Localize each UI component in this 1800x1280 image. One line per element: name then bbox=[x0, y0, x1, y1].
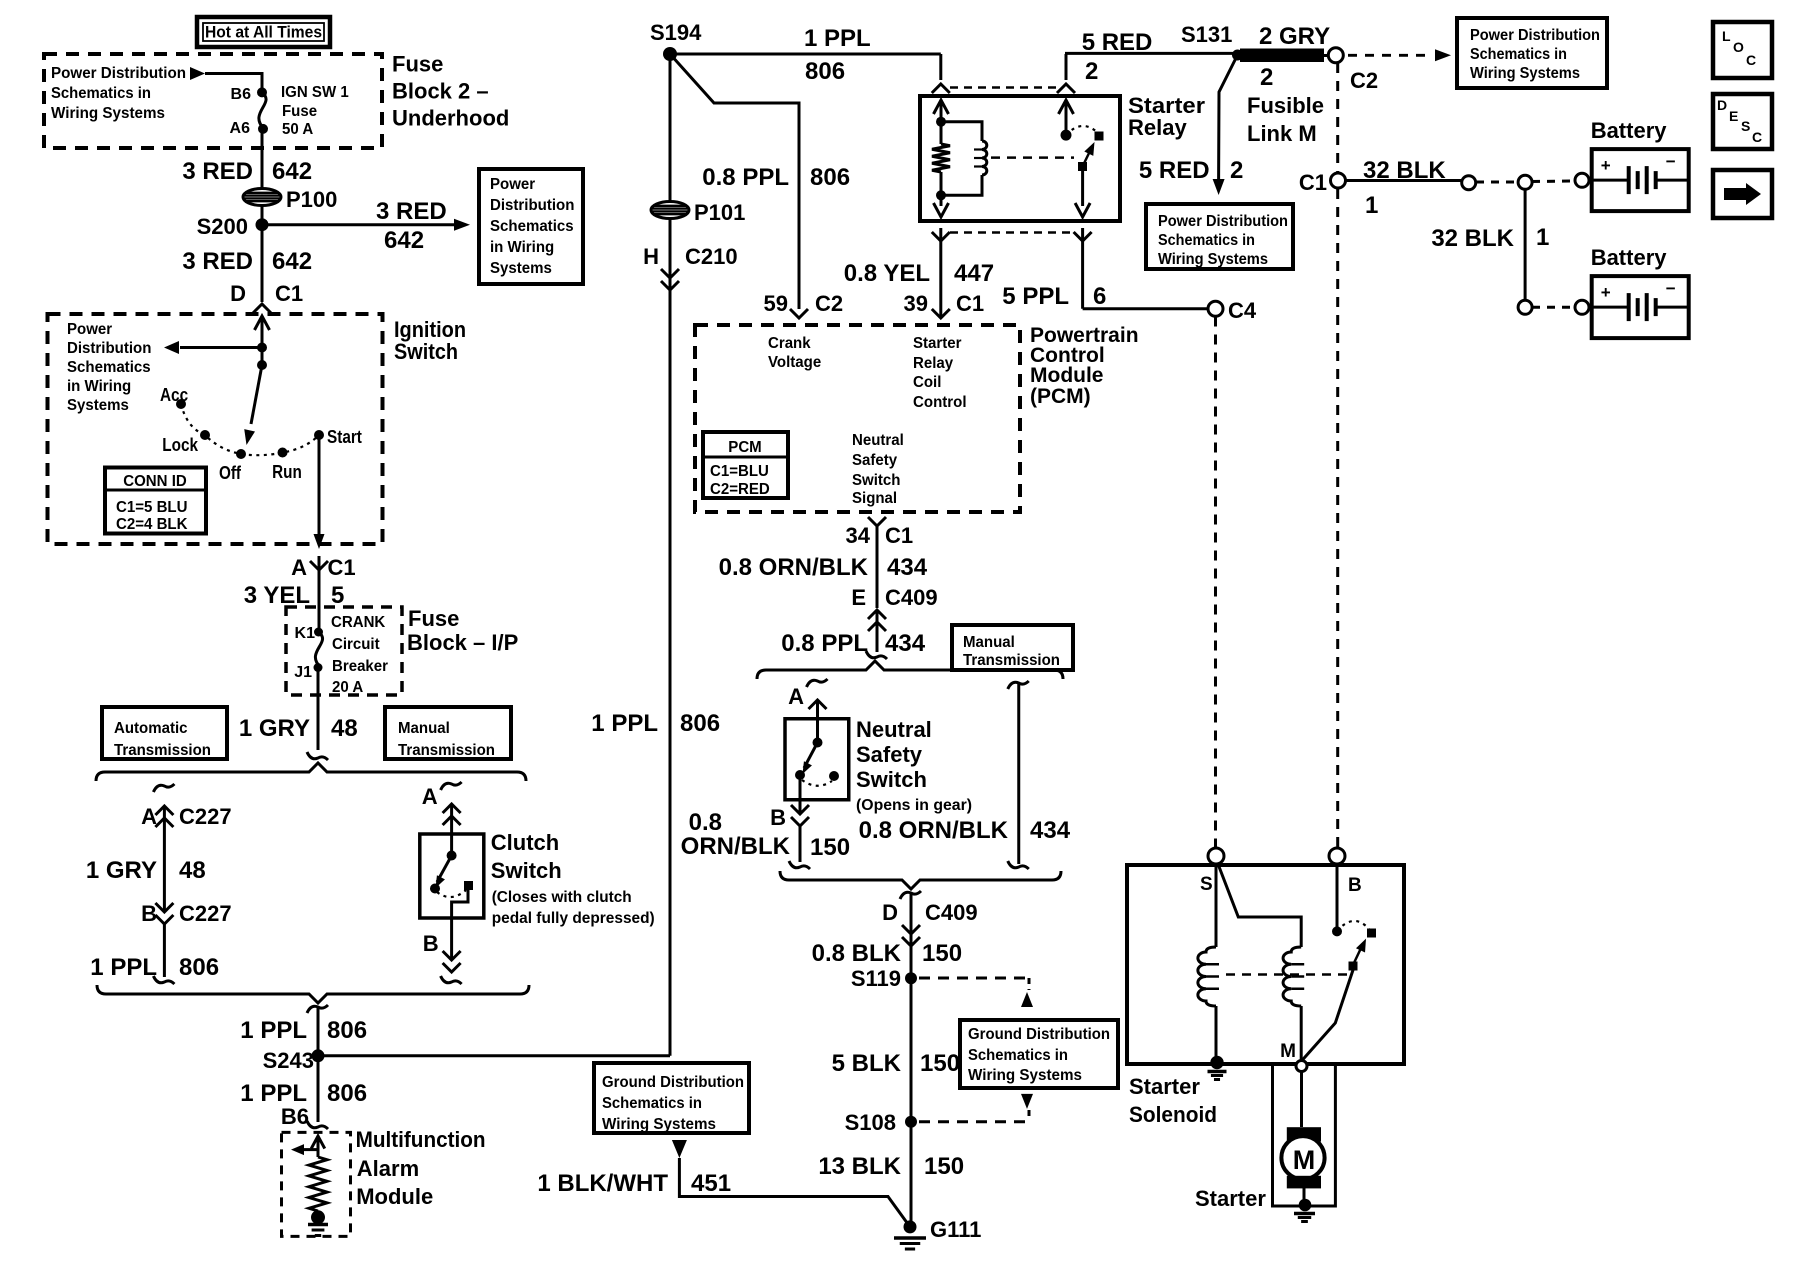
svg-text:Battery: Battery bbox=[1591, 245, 1668, 270]
svg-text:C409: C409 bbox=[925, 900, 978, 925]
svg-text:C2: C2 bbox=[1350, 68, 1378, 93]
svg-text:H: H bbox=[643, 244, 659, 269]
svg-text:C210: C210 bbox=[685, 244, 738, 269]
svg-text:M: M bbox=[1280, 1041, 1296, 1062]
svg-text:3 RED: 3 RED bbox=[376, 198, 447, 225]
svg-text:C: C bbox=[1752, 129, 1762, 145]
svg-text:0.8: 0.8 bbox=[689, 809, 722, 836]
svg-text:J1: J1 bbox=[294, 664, 312, 681]
svg-text:5 RED: 5 RED bbox=[1082, 29, 1153, 56]
svg-text:A: A bbox=[422, 784, 438, 809]
svg-text:Switch: Switch bbox=[856, 767, 927, 792]
svg-text:1 GRY: 1 GRY bbox=[86, 857, 157, 884]
svg-text:P100: P100 bbox=[286, 187, 337, 212]
svg-text:3 RED: 3 RED bbox=[182, 248, 253, 275]
svg-text:ORN/BLK: ORN/BLK bbox=[681, 833, 791, 860]
svg-text:0.8 BLK: 0.8 BLK bbox=[812, 940, 902, 967]
svg-text:0.8 ORN/BLK: 0.8 ORN/BLK bbox=[859, 817, 1009, 844]
svg-text:Power Distribution: Power Distribution bbox=[51, 65, 186, 82]
svg-text:5 RED: 5 RED bbox=[1139, 157, 1210, 184]
svg-text:C1: C1 bbox=[328, 555, 356, 580]
svg-text:Circuit: Circuit bbox=[332, 636, 380, 653]
svg-text:434: 434 bbox=[887, 554, 928, 581]
svg-text:B: B bbox=[141, 901, 157, 926]
svg-text:5: 5 bbox=[331, 582, 344, 609]
svg-text:150: 150 bbox=[922, 940, 962, 967]
svg-text:A: A bbox=[788, 684, 804, 709]
svg-text:0.8 PPL: 0.8 PPL bbox=[781, 630, 868, 657]
svg-text:Clutch: Clutch bbox=[491, 830, 559, 855]
svg-text:B: B bbox=[1348, 875, 1362, 896]
svg-text:5 PPL: 5 PPL bbox=[1002, 283, 1069, 310]
svg-text:1 PPL: 1 PPL bbox=[90, 954, 157, 981]
svg-text:C1: C1 bbox=[1299, 170, 1327, 195]
svg-text:Acc: Acc bbox=[160, 385, 188, 405]
svg-text:642: 642 bbox=[272, 248, 312, 275]
svg-text:D: D bbox=[882, 900, 898, 925]
svg-text:Hot at All Times: Hot at All Times bbox=[205, 23, 322, 42]
svg-text:Schematics: Schematics bbox=[490, 218, 574, 235]
svg-text:Signal: Signal bbox=[852, 490, 897, 507]
svg-text:Run: Run bbox=[272, 462, 302, 482]
svg-text:Wiring Systems: Wiring Systems bbox=[1470, 65, 1580, 82]
svg-text:2: 2 bbox=[1230, 157, 1243, 184]
svg-text:20 A: 20 A bbox=[332, 679, 364, 696]
svg-text:Manual: Manual bbox=[398, 720, 450, 737]
svg-text:Safety: Safety bbox=[852, 452, 897, 469]
svg-text:1: 1 bbox=[1536, 224, 1549, 251]
svg-text:S200: S200 bbox=[197, 214, 248, 239]
svg-text:Voltage: Voltage bbox=[768, 354, 821, 371]
svg-text:Fusible: Fusible bbox=[1247, 93, 1324, 118]
svg-text:(Opens in gear): (Opens in gear) bbox=[856, 797, 972, 814]
svg-text:Underhood: Underhood bbox=[392, 106, 509, 131]
svg-text:434: 434 bbox=[1030, 817, 1071, 844]
svg-text:Automatic: Automatic bbox=[114, 720, 188, 737]
svg-text:B6: B6 bbox=[281, 1104, 309, 1129]
svg-text:B: B bbox=[423, 931, 439, 956]
svg-text:C: C bbox=[1746, 52, 1756, 68]
svg-text:in Wiring: in Wiring bbox=[490, 239, 554, 256]
svg-text:Block 2 –: Block 2 – bbox=[392, 79, 489, 104]
svg-text:Systems: Systems bbox=[490, 260, 552, 277]
svg-text:O: O bbox=[1733, 39, 1744, 55]
svg-text:Distribution: Distribution bbox=[67, 340, 151, 357]
svg-text:Schematics in: Schematics in bbox=[1158, 232, 1255, 249]
svg-text:S108: S108 bbox=[845, 1110, 896, 1135]
svg-text:447: 447 bbox=[954, 260, 994, 287]
svg-text:50 A: 50 A bbox=[282, 121, 314, 138]
svg-text:+: + bbox=[1601, 156, 1611, 175]
svg-text:Module: Module bbox=[1030, 364, 1104, 387]
svg-text:Alarm: Alarm bbox=[357, 1156, 419, 1181]
svg-text:Safety: Safety bbox=[856, 742, 923, 767]
svg-text:806: 806 bbox=[805, 58, 845, 85]
svg-text:B: B bbox=[770, 805, 786, 830]
svg-text:Starter: Starter bbox=[1195, 1186, 1266, 1211]
svg-text:34: 34 bbox=[846, 523, 871, 548]
svg-text:642: 642 bbox=[384, 227, 424, 254]
svg-text:0.8 YEL: 0.8 YEL bbox=[844, 260, 930, 287]
svg-text:Fuse: Fuse bbox=[392, 52, 443, 77]
svg-text:Power Distribution: Power Distribution bbox=[1158, 213, 1288, 230]
svg-text:1 PPL: 1 PPL bbox=[591, 710, 658, 737]
svg-text:Crank: Crank bbox=[768, 335, 811, 352]
svg-text:434: 434 bbox=[885, 630, 926, 657]
svg-text:1 BLK/WHT: 1 BLK/WHT bbox=[537, 1170, 668, 1197]
svg-text:IGN SW 1: IGN SW 1 bbox=[281, 84, 349, 101]
svg-text:1 GRY: 1 GRY bbox=[239, 715, 310, 742]
svg-text:P101: P101 bbox=[694, 200, 745, 225]
svg-text:0.8 PPL: 0.8 PPL bbox=[702, 164, 789, 191]
svg-text:48: 48 bbox=[331, 715, 358, 742]
svg-text:C2: C2 bbox=[815, 291, 843, 316]
svg-text:K1: K1 bbox=[295, 625, 316, 642]
svg-text:Systems: Systems bbox=[67, 397, 129, 414]
svg-text:Wiring Systems: Wiring Systems bbox=[51, 105, 165, 122]
svg-text:S119: S119 bbox=[851, 966, 901, 991]
svg-text:1 PPL: 1 PPL bbox=[240, 1017, 307, 1044]
svg-text:S131: S131 bbox=[1181, 22, 1232, 47]
svg-text:D: D bbox=[230, 281, 246, 306]
svg-text:Starter: Starter bbox=[913, 335, 962, 352]
svg-text:−: − bbox=[1666, 279, 1676, 298]
svg-text:Block – I/P: Block – I/P bbox=[407, 630, 518, 655]
svg-text:B6: B6 bbox=[231, 86, 252, 103]
svg-text:(Closes with clutch: (Closes with clutch bbox=[492, 889, 632, 906]
svg-text:Breaker: Breaker bbox=[332, 658, 388, 675]
svg-text:Schematics in: Schematics in bbox=[968, 1047, 1068, 1064]
svg-text:C1=BLU: C1=BLU bbox=[710, 463, 769, 480]
svg-text:A: A bbox=[141, 804, 157, 829]
svg-text:Schematics in: Schematics in bbox=[602, 1095, 702, 1112]
svg-text:Switch: Switch bbox=[852, 472, 901, 489]
svg-text:Ground Distribution: Ground Distribution bbox=[602, 1074, 744, 1091]
svg-text:G111: G111 bbox=[930, 1217, 981, 1242]
svg-text:Fuse: Fuse bbox=[282, 103, 317, 120]
svg-text:3 YEL: 3 YEL bbox=[244, 582, 310, 609]
svg-text:Power: Power bbox=[67, 321, 112, 338]
svg-text:Lock: Lock bbox=[162, 435, 199, 455]
svg-text:Fuse: Fuse bbox=[408, 606, 459, 631]
svg-text:Distribution: Distribution bbox=[490, 197, 574, 214]
svg-text:−: − bbox=[1666, 152, 1676, 171]
svg-text:C2=RED: C2=RED bbox=[710, 481, 770, 498]
svg-text:Off: Off bbox=[219, 463, 242, 483]
svg-text:Manual: Manual bbox=[963, 634, 1015, 651]
svg-text:Battery: Battery bbox=[1591, 118, 1668, 143]
svg-text:48: 48 bbox=[179, 857, 206, 884]
svg-text:Start: Start bbox=[327, 427, 362, 447]
svg-text:(PCM): (PCM) bbox=[1030, 385, 1091, 408]
svg-text:Neutral: Neutral bbox=[852, 432, 904, 449]
svg-text:M: M bbox=[1293, 1145, 1316, 1175]
svg-text:Power: Power bbox=[490, 176, 535, 193]
svg-text:6: 6 bbox=[1093, 283, 1106, 310]
svg-text:2: 2 bbox=[1085, 58, 1098, 85]
svg-text:C4: C4 bbox=[1228, 298, 1257, 323]
svg-text:Transmission: Transmission bbox=[114, 742, 211, 759]
svg-text:Ground Distribution: Ground Distribution bbox=[968, 1026, 1110, 1043]
svg-text:S: S bbox=[1200, 874, 1213, 895]
svg-text:451: 451 bbox=[691, 1170, 731, 1197]
svg-text:L: L bbox=[1722, 28, 1731, 44]
svg-text:Transmission: Transmission bbox=[398, 742, 495, 759]
svg-text:A6: A6 bbox=[230, 120, 251, 137]
svg-text:Switch: Switch bbox=[491, 858, 562, 883]
svg-text:Transmission: Transmission bbox=[963, 652, 1060, 669]
svg-text:C409: C409 bbox=[885, 585, 938, 610]
svg-text:E: E bbox=[851, 585, 866, 610]
svg-text:806: 806 bbox=[680, 710, 720, 737]
svg-text:32 BLK: 32 BLK bbox=[1431, 225, 1514, 252]
svg-text:Schematics: Schematics bbox=[67, 359, 151, 376]
svg-text:Wiring Systems: Wiring Systems bbox=[968, 1067, 1082, 1084]
svg-text:Power Distribution: Power Distribution bbox=[1470, 27, 1600, 44]
svg-text:Relay: Relay bbox=[1128, 115, 1187, 140]
svg-text:Module: Module bbox=[356, 1184, 433, 1209]
svg-text:13 BLK: 13 BLK bbox=[818, 1153, 901, 1180]
svg-text:Multifunction: Multifunction bbox=[356, 1127, 486, 1152]
svg-text:150: 150 bbox=[924, 1153, 964, 1180]
svg-text:2: 2 bbox=[1260, 64, 1273, 91]
svg-text:S: S bbox=[1741, 118, 1750, 134]
svg-text:+: + bbox=[1601, 283, 1611, 302]
svg-text:59: 59 bbox=[764, 291, 788, 316]
svg-text:2 GRY: 2 GRY bbox=[1259, 23, 1330, 50]
svg-text:D: D bbox=[1717, 97, 1727, 113]
svg-text:Solenoid: Solenoid bbox=[1129, 1102, 1217, 1127]
svg-text:150: 150 bbox=[810, 834, 850, 861]
svg-text:Switch: Switch bbox=[394, 339, 458, 364]
svg-text:E: E bbox=[1729, 108, 1738, 124]
svg-text:5 BLK: 5 BLK bbox=[832, 1050, 902, 1077]
svg-text:A: A bbox=[291, 555, 307, 580]
svg-text:CRANK: CRANK bbox=[331, 614, 386, 631]
svg-text:39: 39 bbox=[904, 291, 928, 316]
svg-text:Relay: Relay bbox=[913, 355, 953, 372]
svg-text:pedal fully depressed): pedal fully depressed) bbox=[492, 910, 655, 927]
svg-text:S243: S243 bbox=[263, 1048, 314, 1073]
svg-text:806: 806 bbox=[327, 1080, 367, 1107]
svg-text:C1: C1 bbox=[275, 281, 303, 306]
svg-text:C227: C227 bbox=[179, 901, 232, 926]
svg-text:CONN ID: CONN ID bbox=[123, 473, 187, 490]
svg-text:32 BLK: 32 BLK bbox=[1363, 157, 1446, 184]
svg-text:Link M: Link M bbox=[1247, 121, 1317, 146]
svg-text:C2=4 BLK: C2=4 BLK bbox=[116, 516, 188, 533]
svg-text:Wiring Systems: Wiring Systems bbox=[602, 1116, 716, 1133]
svg-text:806: 806 bbox=[810, 164, 850, 191]
svg-text:1 PPL: 1 PPL bbox=[804, 25, 871, 52]
svg-text:C1=5 BLU: C1=5 BLU bbox=[116, 499, 188, 516]
svg-text:0.8 ORN/BLK: 0.8 ORN/BLK bbox=[719, 554, 869, 581]
svg-text:C227: C227 bbox=[179, 804, 232, 829]
svg-text:1: 1 bbox=[1365, 192, 1378, 219]
svg-text:1 PPL: 1 PPL bbox=[240, 1080, 307, 1107]
svg-text:PCM: PCM bbox=[728, 439, 761, 456]
svg-text:Coil: Coil bbox=[913, 374, 941, 391]
svg-text:642: 642 bbox=[272, 158, 312, 185]
svg-text:Starter: Starter bbox=[1129, 1074, 1200, 1099]
svg-text:Control: Control bbox=[913, 394, 967, 411]
svg-text:Schematics in: Schematics in bbox=[1470, 46, 1567, 63]
svg-text:3 RED: 3 RED bbox=[182, 158, 253, 185]
svg-text:C1: C1 bbox=[956, 291, 984, 316]
svg-text:Neutral: Neutral bbox=[856, 717, 932, 742]
svg-text:S194: S194 bbox=[650, 20, 702, 45]
svg-text:in Wiring: in Wiring bbox=[67, 378, 131, 395]
svg-text:806: 806 bbox=[327, 1017, 367, 1044]
svg-text:Schematics in: Schematics in bbox=[51, 85, 151, 102]
svg-text:C1: C1 bbox=[885, 523, 913, 548]
svg-text:Wiring Systems: Wiring Systems bbox=[1158, 251, 1268, 268]
svg-text:806: 806 bbox=[179, 954, 219, 981]
svg-text:150: 150 bbox=[920, 1050, 960, 1077]
